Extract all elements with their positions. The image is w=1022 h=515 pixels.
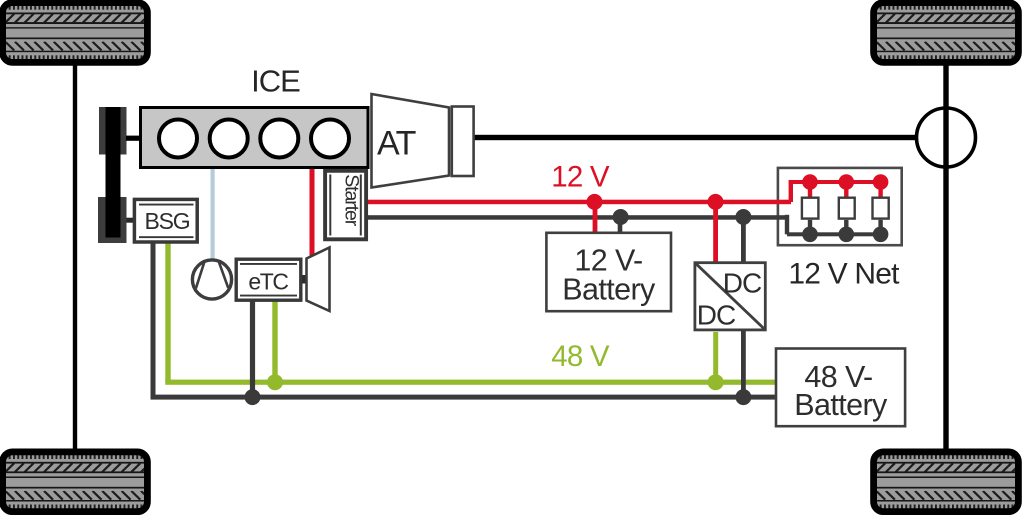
svg-text:AT: AT (377, 125, 416, 163)
svg-text:12 V Net: 12 V Net (788, 258, 900, 291)
svg-text:BSG: BSG (145, 208, 190, 234)
svg-text:Starter: Starter (341, 174, 363, 226)
svg-text:48 V: 48 V (551, 340, 610, 373)
svg-text:Battery: Battery (562, 273, 656, 307)
svg-text:eTC: eTC (248, 269, 288, 295)
svg-text:Battery: Battery (794, 388, 888, 422)
svg-text:DC: DC (723, 268, 762, 299)
svg-text:12 V: 12 V (551, 161, 610, 194)
svg-text:ICE: ICE (251, 64, 300, 99)
svg-text:DC: DC (697, 300, 736, 331)
